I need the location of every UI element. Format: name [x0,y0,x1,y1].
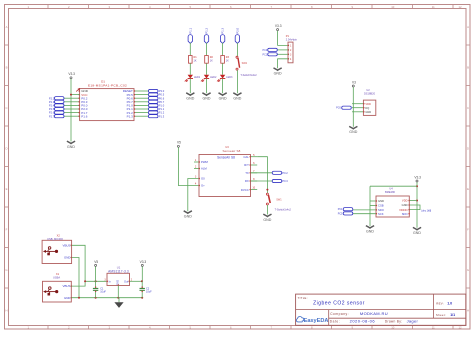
svg-text:11: 11 [432,326,435,330]
svg-text:SW2: SW2 [242,62,248,65]
svg-text:P2.4: P2.4 [49,104,55,108]
svg-text:ALM: ALM [201,167,207,171]
svg-text:H: H [467,308,469,312]
svg-text:P0.7: P0.7 [159,100,165,104]
svg-text:T-Switch3x4x2: T-Switch3x4x2 [275,208,292,211]
svg-text:GND: GND [233,97,241,101]
svg-text:E: E [6,187,8,191]
svg-text:PWM: PWM [201,160,209,164]
svg-text:CAL: CAL [243,155,249,159]
svg-text:1K: 1K [194,60,197,63]
svg-text:12: 12 [458,5,462,9]
svg-text:PC5: PC5 [338,212,343,215]
svg-text:A: A [467,25,469,29]
svg-text:2.54x4pin: 2.54x4pin [286,37,298,41]
svg-text:Drawn By:: Drawn By: [385,319,402,323]
svg-text:CSB: CSB [378,204,384,208]
svg-text:DVCC: DVCC [241,188,249,192]
svg-text:P3.0: P3.0 [159,89,165,93]
svg-text:E: E [467,187,469,191]
svg-text:F: F [6,227,8,231]
svg-text:1K: 1K [210,60,213,63]
svg-text:SDO: SDO [402,212,408,216]
svg-text:GND: GND [64,296,70,300]
svg-text:R/T: R/T [244,163,249,167]
svg-text:10: 10 [391,326,395,330]
svg-text:P1.2: P1.2 [205,27,209,33]
svg-text:GND: GND [274,72,282,76]
svg-text:P2.2: P2.2 [49,96,55,100]
svg-text:REV:: REV: [436,302,444,306]
svg-text:P2.3: P2.3 [49,100,55,104]
svg-text:LED2: LED2 [210,76,217,79]
svg-text:GND: GND [64,256,70,260]
svg-text:Company:: Company: [330,312,349,316]
svg-text:T-Switch3x4x2: T-Switch3x4x2 [240,74,257,77]
svg-text:B: B [6,65,8,69]
svg-text:SenseAir S8: SenseAir S8 [217,156,235,160]
svg-text:USBA: USBA [53,276,60,280]
svg-text:B: B [467,65,469,69]
svg-text:GND: GND [186,97,194,101]
svg-text:D: D [467,146,469,150]
svg-text:VDD: VDD [365,102,371,106]
svg-text:VBUS: VBUS [63,284,71,288]
svg-text:10uF: 10uF [100,291,106,294]
svg-text:Date:: Date: [330,319,340,323]
svg-text:GND: GND [378,199,384,203]
svg-text:GND: GND [402,203,408,207]
svg-text:1.0: 1.0 [447,302,452,306]
svg-text:1K: 1K [226,60,229,63]
svg-text:P1.3: P1.3 [159,114,165,118]
svg-text:BME280: BME280 [385,190,396,194]
svg-text:GND: GND [219,97,227,101]
svg-text:PC4: PC4 [338,208,343,211]
svg-text:P1: P1 [286,34,290,38]
svg-text:LED3: LED3 [226,76,233,79]
svg-text:Out: Out [124,279,128,283]
svg-text:10: 10 [391,5,395,9]
svg-text:G0: G0 [201,177,205,181]
svg-text:P0.3: P0.3 [282,179,288,183]
svg-text:P1.3: P1.3 [127,114,134,118]
svg-text:PC1: PC1 [263,53,268,56]
svg-text:SW1: SW1 [276,198,282,201]
svg-text:U2: U2 [366,88,370,92]
svg-text:V3.3: V3.3 [140,260,147,264]
svg-text:G: G [5,268,7,272]
svg-text:DS18B20: DS18B20 [364,91,376,95]
svg-text:E18-MS1PA1-PCB_C02: E18-MS1PA1-PCB_C02 [88,84,127,88]
svg-text:P1.6: P1.6 [81,114,88,118]
svg-text:A: A [6,25,8,29]
svg-text:V5: V5 [94,260,98,264]
svg-text:P0.2: P0.2 [282,171,288,175]
svg-text:Jager: Jager [407,318,419,323]
svg-text:Sheet:: Sheet: [436,313,446,317]
svg-text:PC6: PC6 [336,107,341,110]
svg-text:P1.0: P1.0 [159,104,165,108]
svg-text:V3.3: V3.3 [275,24,282,28]
svg-text:MODKAM.RU: MODKAM.RU [360,311,388,316]
svg-text:USB_MICRO: USB_MICRO [47,237,63,241]
svg-text:12: 12 [458,326,462,330]
svg-text:EasyEDA: EasyEDA [304,318,329,324]
svg-text:C: C [467,106,469,110]
svg-text:P1.2: P1.2 [159,111,165,115]
svg-text:SDO: SDO [378,208,384,212]
svg-text:AMS1117-3.3: AMS1117-3.3 [108,269,129,273]
svg-text:X1: X1 [56,272,60,276]
svg-text:C: C [5,106,7,110]
svg-text:V3: V3 [352,80,356,84]
svg-text:P2.0: P2.0 [235,27,239,33]
svg-text:H: H [5,308,7,312]
svg-text:VDD: VDD [402,199,408,203]
svg-text:GND: GND [184,215,192,219]
svg-text:GND: GND [67,145,75,149]
svg-text:P0.6: P0.6 [159,96,165,100]
svg-text:V5: V5 [177,141,181,145]
svg-text:11: 11 [432,5,435,9]
svg-text:GND: GND [203,97,211,101]
svg-text:P1.1: P1.1 [159,107,165,111]
svg-text:GND: GND [349,130,357,134]
svg-text:GND: GND [413,231,421,235]
svg-text:1/1: 1/1 [450,313,455,317]
svg-text:10uF: 10uF [146,291,152,294]
svg-text:GND: GND [263,218,271,222]
svg-text:TITLE:: TITLE: [298,296,308,300]
svg-text:DQ: DQ [365,106,369,110]
svg-text:Zigbee CO2 sensor: Zigbee CO2 sensor [313,301,365,307]
svg-text:P1.1: P1.1 [188,27,192,33]
svg-text:LED1: LED1 [194,76,201,79]
svg-text:F: F [467,227,469,231]
svg-text:RX: RX [245,179,249,183]
svg-text:PC0: PC0 [263,49,268,52]
svg-text:D: D [5,146,7,150]
svg-text:X2: X2 [57,234,61,238]
svg-text:Senseair S8: Senseair S8 [223,149,241,153]
svg-text:2020-08-06: 2020-08-06 [350,318,376,323]
svg-text:P2.7: P2.7 [49,114,55,118]
svg-text:V3.3: V3.3 [68,72,75,76]
svg-text:G+: G+ [201,184,205,188]
svg-text:SCK: SCK [378,212,384,216]
svg-text:[dec 1k8]: [dec 1k8] [422,210,432,213]
svg-text:P0.5: P0.5 [159,93,165,97]
svg-text:VDDIO: VDDIO [399,208,408,212]
svg-text:GND: GND [366,229,374,233]
svg-text:P2.5: P2.5 [49,107,55,111]
svg-text:TX: TX [245,171,249,175]
svg-text:V3.3: V3.3 [414,175,421,179]
svg-text:P1.3: P1.3 [221,27,225,33]
svg-text:P2.6: P2.6 [49,111,55,115]
svg-text:VBUS: VBUS [63,244,71,248]
svg-text:G: G [467,268,469,272]
svg-text:GND: GND [365,110,371,114]
